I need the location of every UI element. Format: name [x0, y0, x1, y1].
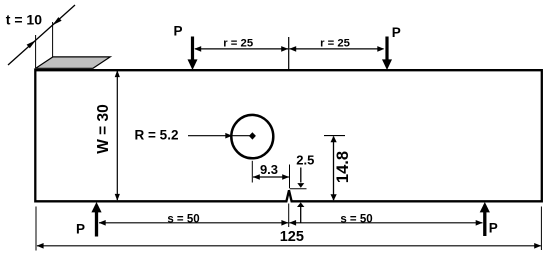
dimension 9.3	[253, 162, 289, 180]
t extension line back	[52, 22, 54, 57]
t arrowhead upper	[52, 17, 61, 25]
t dimension diagonal line	[8, 5, 75, 65]
svg-text:P: P	[489, 221, 498, 236]
center extension line bottom	[288, 204, 290, 228]
svg-text:s = 50: s = 50	[340, 213, 372, 225]
extension line below hole center	[251, 161, 253, 183]
svg-text:W = 30: W = 30	[95, 104, 112, 154]
leader line to hole center	[188, 133, 252, 139]
svg-text:125: 125	[280, 229, 304, 245]
label P bottom-right	[489, 221, 498, 236]
hole center dot	[249, 132, 256, 139]
label P top-left	[173, 24, 182, 39]
svg-text:r = 25: r = 25	[223, 38, 253, 50]
t arrowhead lower	[27, 40, 36, 48]
dimension 2.5	[296, 152, 314, 223]
dimension W=30	[95, 70, 120, 200]
svg-text:R = 5.2: R = 5.2	[135, 128, 179, 143]
hole circle	[231, 115, 273, 158]
label R=5.2	[135, 128, 179, 143]
dimension s=50 left	[99, 213, 289, 225]
label P top-right	[392, 25, 401, 40]
svg-text:2.5: 2.5	[296, 152, 314, 167]
extension line above notch	[289, 165, 291, 189]
dimension s=50 right	[289, 213, 483, 225]
t=10 label	[6, 11, 42, 27]
dimension r=25 left	[194, 38, 288, 52]
dimension r=25 right	[289, 38, 384, 52]
notch tip level tick	[290, 188, 307, 190]
label P bottom-left	[76, 222, 85, 237]
dimension 14.8	[324, 136, 352, 201]
extension line 125 right	[540, 207, 542, 251]
beam outline with notch	[35, 70, 542, 201]
svg-text:r = 25: r = 25	[320, 38, 350, 50]
load arrow P top-right	[382, 37, 392, 71]
svg-text:s = 50: s = 50	[167, 213, 199, 225]
svg-text:P: P	[173, 24, 182, 39]
support arrow P bottom-left	[91, 202, 101, 237]
t extension line front	[35, 35, 37, 68]
svg-text:14.8: 14.8	[334, 151, 352, 183]
svg-text:t = 10: t = 10	[6, 11, 42, 27]
svg-text:P: P	[392, 25, 401, 40]
support arrow P bottom-right	[480, 202, 490, 236]
center tick top	[288, 37, 290, 71]
extension line 125 left	[35, 207, 37, 251]
thickness top face (gray parallelogram)	[36, 57, 111, 68]
svg-text:P: P	[76, 222, 85, 237]
svg-text:9.3: 9.3	[260, 162, 278, 177]
dimension 125	[37, 229, 542, 249]
load arrow P top-left	[188, 37, 198, 71]
